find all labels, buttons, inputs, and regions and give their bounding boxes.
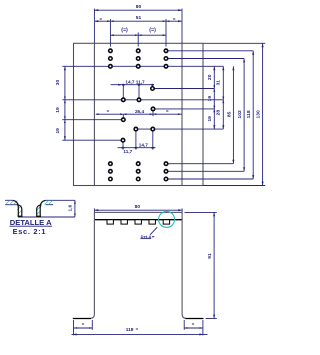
right chain 20/19/19 xyxy=(207,66,216,129)
bottom mid chain 11,7/14,7 xyxy=(118,131,156,154)
dimple row line with notches xyxy=(95,220,182,224)
svg-text:31: 31 xyxy=(215,80,221,86)
DETALLE A label xyxy=(10,218,53,227)
svg-text:85: 85 xyxy=(226,111,232,117)
left flange = bracket xyxy=(74,320,93,335)
dimension 1,6 xyxy=(68,200,76,217)
svg-text:=: = xyxy=(82,322,85,327)
svg-text:30: 30 xyxy=(55,80,61,86)
dimension 118 bottom xyxy=(72,327,208,336)
svg-text:130: 130 xyxy=(256,110,262,118)
channel left wall xyxy=(90,212,95,318)
dimension 91 xyxy=(185,212,217,318)
svg-text:11,7: 11,7 xyxy=(123,149,132,154)
channel top edge xyxy=(94,211,182,213)
fold line right xyxy=(181,43,183,185)
detail collar right xyxy=(36,200,46,217)
svg-text:102: 102 xyxy=(237,110,243,118)
detail callout leader and label xyxy=(140,227,157,239)
row2-top extension line xyxy=(166,58,244,60)
dimension 118 right xyxy=(246,51,254,179)
bottom edge extension to 130 dim xyxy=(203,185,265,187)
P6-P7 row extension xyxy=(134,128,223,130)
dimension 130 xyxy=(256,43,264,185)
P4 row extension xyxy=(153,108,215,110)
svg-text:19: 19 xyxy=(55,107,61,113)
bottom row3 extension xyxy=(166,178,253,180)
right flange edge line xyxy=(186,318,204,320)
top edge extension to 130 dim xyxy=(203,42,265,44)
dimension 85 xyxy=(226,66,234,163)
svg-text:1,6: 1,6 xyxy=(68,205,74,212)
detail hatch right xyxy=(37,201,53,215)
left flange edge line xyxy=(73,318,91,320)
svg-text:80: 80 xyxy=(136,4,142,10)
left dim chain 30/19/19 xyxy=(55,66,66,140)
P5 row extension xyxy=(62,119,123,121)
channel right wall xyxy=(182,212,187,318)
svg-text:20: 20 xyxy=(207,74,213,80)
svg-text:19: 19 xyxy=(55,128,61,134)
svg-text:118: 118 xyxy=(126,327,134,333)
dimension 51 top xyxy=(94,15,182,47)
svg-text:=: = xyxy=(100,17,103,22)
right chain 31/28 xyxy=(215,66,224,129)
plate outline xyxy=(74,43,204,185)
svg-text:80: 80 xyxy=(135,204,141,210)
dimension 26,4 xyxy=(95,109,182,118)
middle cluster holes P1-P8 xyxy=(121,87,155,142)
detail right edge xyxy=(74,200,76,217)
Esc. 2:1 label xyxy=(13,227,47,236)
svg-text:19: 19 xyxy=(207,116,213,122)
detail hatch left xyxy=(6,201,22,215)
dimension 102 xyxy=(237,59,245,172)
dimension 80 bottom view xyxy=(94,204,182,212)
right flange = bracket xyxy=(184,320,203,335)
top hole group 3x3 xyxy=(109,49,168,68)
detail sheet inner surface xyxy=(5,204,53,206)
mid dim chain 14,7/11,7 top xyxy=(111,79,155,98)
svg-text:118: 118 xyxy=(246,110,252,118)
fold line left xyxy=(93,43,95,185)
svg-text:28: 28 xyxy=(215,110,221,116)
svg-text:=: = xyxy=(173,17,176,22)
svg-text:=: = xyxy=(192,322,195,327)
svg-text:Det.A: Det.A xyxy=(141,234,152,239)
svg-text:Esc. 2:1: Esc. 2:1 xyxy=(13,227,47,236)
bottom row1 extension xyxy=(166,163,233,165)
P8 row extension xyxy=(62,139,123,141)
detail sheet top surface xyxy=(5,199,75,201)
svg-text:14,7: 14,7 xyxy=(139,142,149,147)
P1 row extension xyxy=(152,88,214,90)
svg-text:DETALLE A: DETALLE A xyxy=(10,218,52,227)
svg-text:=: = xyxy=(166,109,169,114)
dimension 80 top xyxy=(94,4,182,43)
row3-top hole centerline xyxy=(62,65,223,67)
svg-text:51: 51 xyxy=(136,15,142,21)
svg-text:(=): (=) xyxy=(149,27,156,33)
svg-text:(=): (=) xyxy=(121,27,128,33)
bottom row2 extension xyxy=(166,170,244,172)
bottom hole group 3x3 xyxy=(109,162,168,181)
svg-text:91: 91 xyxy=(207,253,213,259)
P2-P3 row centerline xyxy=(62,99,223,101)
svg-text:14,7 11,7: 14,7 11,7 xyxy=(125,79,145,84)
dimension (=)(=) top xyxy=(110,27,166,46)
svg-text:=: = xyxy=(107,109,110,114)
detail collar left xyxy=(13,200,23,217)
detail callout circle A xyxy=(159,211,175,227)
row1-top extension line xyxy=(166,50,253,52)
detail bottom plane line xyxy=(18,216,75,218)
svg-text:19: 19 xyxy=(207,96,213,102)
svg-text:26,4: 26,4 xyxy=(135,109,145,114)
